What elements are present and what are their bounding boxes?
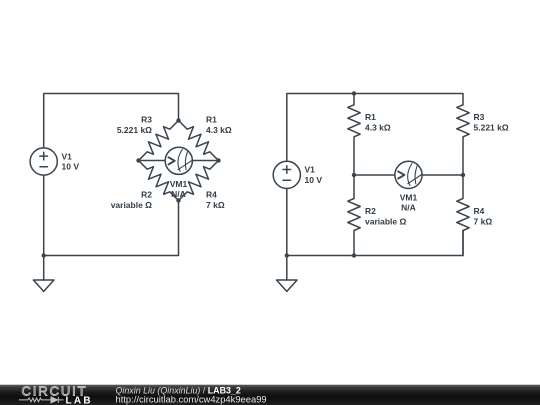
wire top left circuit [44, 94, 179, 148]
wire left ground stem [43, 256, 45, 281]
node left bridge left [136, 158, 140, 162]
svg-text:VM1: VM1 [170, 179, 188, 189]
resistor R1 right circuit [348, 94, 360, 176]
svg-text:N/A: N/A [171, 189, 186, 199]
voltage source V1 left [30, 148, 57, 175]
node right circuit middle right [461, 173, 465, 177]
wire bottom rail right circuit [287, 231, 463, 256]
wire V1 left bottom lead [43, 175, 45, 255]
node left ground junction [42, 253, 46, 257]
node right circuit bottom left [285, 253, 289, 257]
svg-text:V1: V1 [62, 151, 73, 161]
wire right ground stem [286, 256, 288, 281]
svg-text:R1: R1 [365, 112, 376, 122]
ground GND right [277, 280, 298, 291]
ground GND left [33, 280, 54, 291]
svg-text:R2: R2 [365, 206, 376, 216]
svg-text:7 kΩ: 7 kΩ [206, 200, 225, 210]
resistor R4 right circuit [457, 175, 469, 256]
svg-text:variable Ω: variable Ω [365, 216, 406, 226]
svg-text:R2: R2 [141, 190, 152, 200]
svg-text:R1: R1 [206, 115, 217, 125]
wire left bridge bottom to ground rail [44, 201, 179, 256]
svg-text:10 V: 10 V [305, 175, 323, 185]
svg-text:R4: R4 [206, 190, 217, 200]
resistor R1 left bridge [179, 121, 219, 161]
svg-text:N/A: N/A [401, 203, 416, 213]
svg-text:7 kΩ: 7 kΩ [474, 216, 493, 226]
wire V1 right bottom lead [286, 189, 288, 256]
svg-text:R3: R3 [141, 115, 152, 125]
wire middle row right circuit [354, 174, 463, 176]
svg-text:4.3 kΩ: 4.3 kΩ [206, 125, 232, 135]
resistor R2 right circuit [348, 175, 360, 256]
svg-text:http://circuitlab.com/cw4zp4k9: http://circuitlab.com/cw4zp4k9eea99 [116, 394, 267, 405]
resistor R3 left bridge [139, 121, 179, 161]
svg-text:LAB: LAB [66, 395, 93, 405]
svg-text:R3: R3 [474, 112, 485, 122]
footer logo circuit glyph [19, 397, 64, 403]
node right circuit bottom middle [352, 253, 356, 257]
resistor R3 right circuit [457, 105, 469, 175]
node left bridge bottom [176, 198, 180, 202]
wire bridge middle horizontal [139, 160, 219, 162]
node right circuit middle left [352, 173, 356, 177]
node right circuit top middle [352, 91, 356, 95]
voltmeter VM1 right [395, 161, 422, 188]
svg-text:4.3 kΩ: 4.3 kΩ [365, 122, 391, 132]
svg-text:variable Ω: variable Ω [111, 200, 152, 210]
svg-text:10 V: 10 V [62, 162, 80, 172]
wire top right circuit [287, 94, 463, 162]
voltmeter VM1 left [165, 147, 192, 174]
svg-text:R4: R4 [474, 206, 485, 216]
resistor R4 left bridge [179, 161, 219, 201]
resistor R2 left bridge [139, 161, 179, 201]
node left bridge top [176, 118, 180, 122]
svg-text:5.221 kΩ: 5.221 kΩ [474, 122, 509, 132]
svg-text:V1: V1 [305, 165, 316, 175]
node left bridge right [216, 158, 220, 162]
voltage source V1 right [273, 161, 300, 188]
footer bar [0, 385, 540, 405]
svg-text:5.221 kΩ: 5.221 kΩ [117, 125, 152, 135]
svg-text:VM1: VM1 [400, 192, 418, 202]
